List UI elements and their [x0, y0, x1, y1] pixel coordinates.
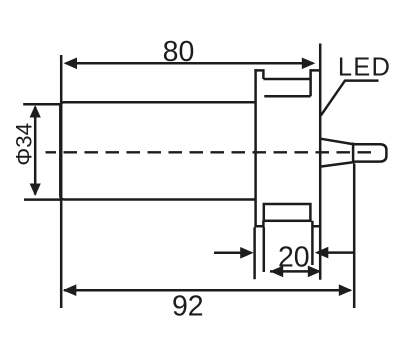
arrowhead 20 right [315, 247, 329, 259]
dim 80 line [66, 62, 313, 65]
flange bottom groove [264, 204, 311, 221]
flange bottom left lip [254, 221, 263, 226]
dim 20 extension lines [253, 227, 256, 279]
svg-text:20: 20 [278, 241, 310, 273]
LED leader line [321, 81, 379, 116]
arrowhead phi34 top [30, 105, 41, 118]
dim 20 lower line [270, 270, 321, 273]
flange top groove [263, 70, 320, 96]
rear face line [319, 44, 322, 280]
body outline [60, 102, 255, 199]
dim extension line left [60, 55, 63, 308]
flange left edge [254, 69, 257, 227]
svg-text:LED: LED [338, 53, 391, 81]
connector joint [352, 143, 355, 164]
arrowhead 20 left [240, 247, 254, 259]
arrowhead 80 right [302, 58, 316, 70]
arrowhead 92 right [339, 284, 353, 296]
arrowhead 92 left [63, 284, 77, 296]
dim extension line right (92) [353, 164, 356, 309]
dim 20 right arrow line [327, 251, 354, 254]
svg-text:92: 92 [172, 290, 204, 322]
svg-text:Φ34: Φ34 [12, 123, 37, 166]
arrowhead 20 lower left [270, 266, 284, 278]
flange bottom right lip [312, 221, 321, 226]
flange top left lip [254, 70, 263, 79]
arrowhead 20 lower right [308, 266, 322, 278]
arrowhead 80 left [64, 58, 78, 70]
dim 92 line [64, 289, 351, 292]
arrowhead phi34 bottom [30, 184, 41, 197]
dim phi34 extension top [23, 103, 61, 106]
connector tip [354, 144, 387, 161]
dim phi34 extension bottom [24, 198, 62, 201]
svg-text:80: 80 [163, 36, 195, 68]
dim phi34 line [34, 107, 37, 195]
connector cone [321, 139, 353, 167]
centerline [46, 151, 377, 153]
dim 20 left arrow line [214, 252, 242, 255]
